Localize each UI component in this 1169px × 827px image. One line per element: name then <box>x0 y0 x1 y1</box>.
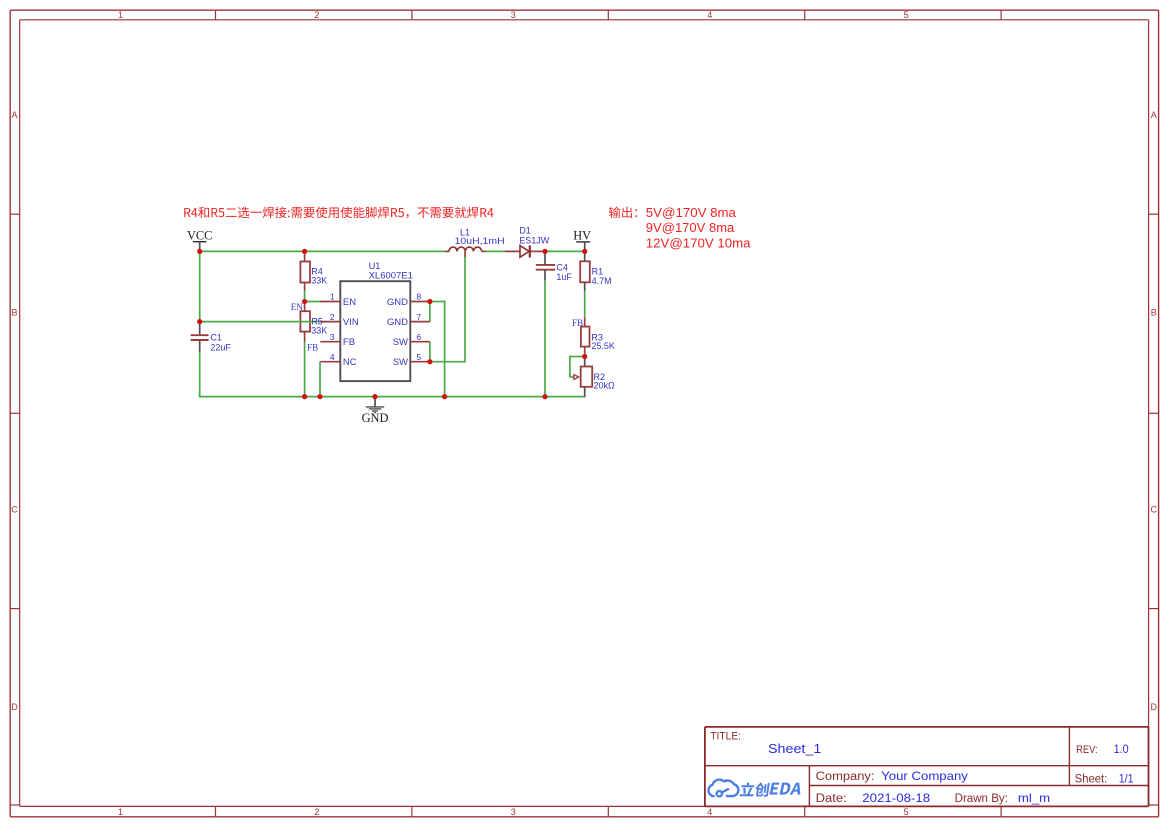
svg-text:12V@170V 10ma: 12V@170V 10ma <box>646 236 751 251</box>
svg-text:C4: C4 <box>556 262 568 272</box>
svg-text:10uH,1mH: 10uH,1mH <box>455 236 505 246</box>
svg-text:1: 1 <box>118 10 123 20</box>
svg-text:2: 2 <box>330 312 335 322</box>
svg-text:1: 1 <box>330 292 335 302</box>
svg-text:3: 3 <box>511 10 516 20</box>
svg-text:2021-08-18: 2021-08-18 <box>862 792 930 805</box>
svg-text:HV: HV <box>573 229 591 243</box>
svg-text:33K: 33K <box>311 276 327 286</box>
svg-text:D: D <box>11 702 18 712</box>
svg-text:25.5K: 25.5K <box>591 341 615 351</box>
svg-text:C: C <box>1151 505 1158 515</box>
svg-text:Company:: Company: <box>816 771 875 783</box>
svg-text:R1: R1 <box>592 267 604 277</box>
svg-text:3: 3 <box>330 332 335 342</box>
svg-text:8: 8 <box>416 292 421 302</box>
svg-text:3: 3 <box>511 807 516 817</box>
svg-text:GND: GND <box>362 411 389 425</box>
svg-text:D: D <box>1151 702 1158 712</box>
svg-text:REV:: REV: <box>1076 744 1098 756</box>
svg-text:FB: FB <box>343 337 355 348</box>
svg-text:5: 5 <box>904 807 909 817</box>
svg-text:1uF: 1uF <box>556 272 572 282</box>
svg-text:A: A <box>11 110 17 120</box>
svg-text:4.7M: 4.7M <box>592 276 612 286</box>
svg-text:1: 1 <box>118 807 123 817</box>
svg-text:C: C <box>11 505 18 515</box>
svg-text:SW: SW <box>393 337 408 348</box>
svg-text:C1: C1 <box>210 332 222 342</box>
svg-text:GND: GND <box>387 317 408 328</box>
svg-text:FB: FB <box>307 343 318 353</box>
svg-text:Date:: Date: <box>816 793 847 805</box>
svg-text:9V@170V 8ma: 9V@170V 8ma <box>646 220 735 235</box>
svg-text:ES1JW: ES1JW <box>519 235 550 245</box>
svg-text:1.0: 1.0 <box>1114 743 1129 756</box>
svg-text:4: 4 <box>707 10 712 20</box>
svg-text:GND: GND <box>387 297 408 308</box>
svg-text:22uF: 22uF <box>210 342 231 352</box>
svg-text:NC: NC <box>343 357 357 368</box>
svg-text:A: A <box>1151 110 1157 120</box>
svg-text:EN: EN <box>291 302 303 312</box>
svg-text:6: 6 <box>416 332 421 342</box>
svg-text:B: B <box>11 307 17 317</box>
svg-text:7: 7 <box>416 312 421 322</box>
svg-text:2: 2 <box>314 807 319 817</box>
svg-text:VIN: VIN <box>343 317 359 328</box>
svg-text:5: 5 <box>416 352 421 362</box>
svg-text:FB: FB <box>572 318 583 328</box>
svg-text:EN: EN <box>343 297 356 308</box>
svg-text:SW: SW <box>393 357 408 368</box>
svg-text:Your Company: Your Company <box>881 770 968 783</box>
svg-text:4: 4 <box>330 352 335 362</box>
svg-text:TITLE:: TITLE: <box>710 730 741 742</box>
svg-text:B: B <box>1151 307 1157 317</box>
svg-text:VCC: VCC <box>187 228 212 242</box>
svg-text:Sheet_1: Sheet_1 <box>768 741 821 756</box>
svg-text:Drawn By:: Drawn By: <box>955 793 1008 805</box>
svg-text:4: 4 <box>707 807 712 817</box>
svg-text:5V@170V 8ma: 5V@170V 8ma <box>646 205 737 220</box>
svg-text:XL6007E1: XL6007E1 <box>369 271 413 281</box>
svg-text:5: 5 <box>904 10 909 20</box>
svg-text:ml_m: ml_m <box>1018 792 1050 805</box>
svg-text:Sheet:: Sheet: <box>1075 773 1107 785</box>
svg-text:33K: 33K <box>311 326 327 336</box>
svg-text:1/1: 1/1 <box>1119 772 1134 785</box>
svg-text:D1: D1 <box>519 225 531 235</box>
svg-text:U1: U1 <box>369 261 381 271</box>
svg-text:20kΩ: 20kΩ <box>594 380 616 390</box>
svg-text:2: 2 <box>314 10 319 20</box>
